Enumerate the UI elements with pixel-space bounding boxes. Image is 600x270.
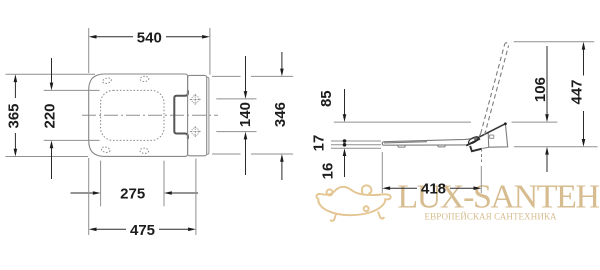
lid edge tangent dark (466, 139, 480, 146)
dim 447 (568, 42, 585, 147)
dim 418 (382, 152, 481, 198)
dim 220 (42, 58, 100, 179)
svg-text:418: 418 (421, 181, 446, 198)
svg-text:ЕВРОПЕЙСКАЯ САНТЕХНИКА: ЕВРОПЕЙСКАЯ САНТЕХНИКА (425, 212, 558, 222)
svg-text:540: 540 (137, 29, 162, 46)
seat bumpers side (398, 145, 446, 147)
dim 275 (71, 161, 199, 207)
svg-text:140: 140 (237, 102, 254, 127)
svg-text:220: 220 (42, 103, 59, 128)
dim 540 (89, 28, 210, 75)
lid bottom dashed arc (475, 134, 481, 140)
svg-text:475: 475 (130, 222, 155, 239)
cover small square (490, 135, 494, 138)
cover top thick diagonal (474, 124, 505, 140)
dim 365 (5, 74, 95, 156)
svg-text:447: 447 (568, 79, 585, 104)
notch thick edge (174, 91, 188, 140)
hinge ellipse (467, 135, 479, 145)
svg-text:17: 17 (311, 135, 328, 152)
fixing hole lower (190, 126, 201, 137)
seat opening dotted (101, 90, 164, 140)
lid tip dashed arc (505, 43, 509, 46)
svg-text:106: 106 (532, 77, 549, 102)
svg-text:85: 85 (318, 90, 335, 107)
svg-text:365: 365 (5, 103, 22, 128)
centerline top view (82, 114, 218, 116)
hinge axis dashed (481, 149, 483, 163)
svg-text:346: 346 (272, 102, 289, 127)
dim 17 refs (311, 135, 381, 152)
svg-text:16: 16 (319, 163, 336, 180)
watermark bathtub (316, 185, 390, 221)
svg-text:275: 275 (120, 186, 145, 203)
lid open dashed line 2 (485, 46, 509, 135)
dim 346 (212, 52, 293, 180)
wedge to cover link (482, 147, 489, 148)
bumper bottom-right (140, 148, 149, 154)
dim 140 (216, 56, 256, 175)
dim 475 (89, 158, 196, 239)
bumper top-right (140, 76, 149, 82)
fixing hole upper (190, 94, 201, 105)
pivot dot (504, 122, 507, 125)
dim 106 (512, 46, 558, 172)
mounting plate lip (207, 77, 209, 154)
seat outline (89, 74, 188, 156)
cover plate quad (488, 124, 508, 147)
lid open dashed line 1 (481, 44, 505, 134)
dim 16 (319, 148, 346, 179)
bottom ref line right (514, 146, 598, 148)
dim 85 (318, 89, 471, 122)
bumper bottom-left (101, 146, 111, 153)
seat profile side (382, 138, 478, 146)
bumper top-left (102, 77, 112, 84)
mounting plate (188, 75, 207, 155)
top ref line right (514, 41, 595, 43)
lid lower corner dark wedge (470, 146, 482, 151)
